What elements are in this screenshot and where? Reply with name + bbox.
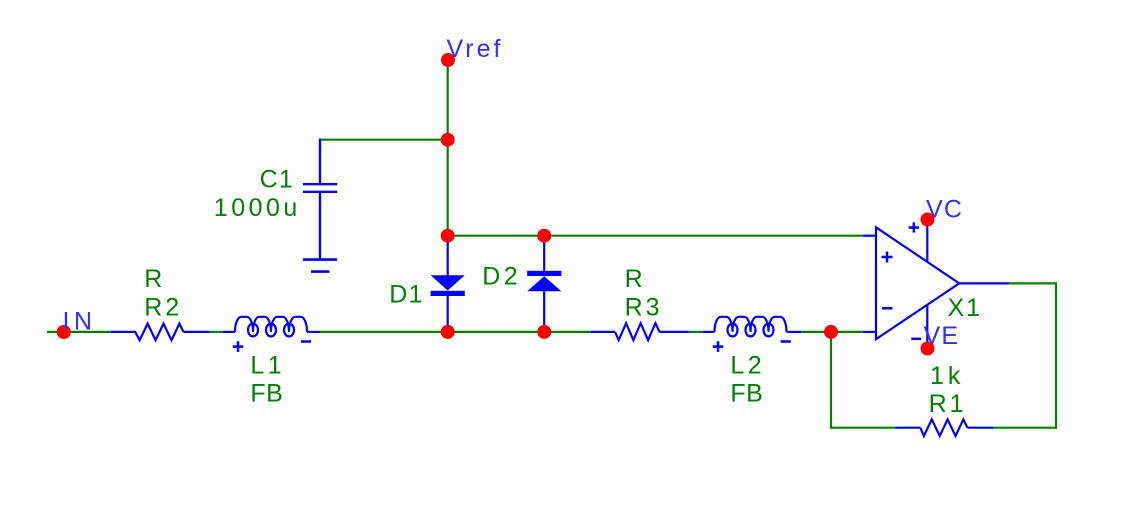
svg-text:FB: FB (250, 380, 283, 408)
wire R3 to L2 (689, 331, 703, 333)
svg-text:1000u: 1000u (214, 194, 301, 222)
op-amp VE supply pin (926, 306, 928, 349)
svg-text:X1: X1 (948, 294, 983, 322)
resistor R3 (591, 323, 689, 340)
wire L2 to op-amp minus input (801, 331, 863, 333)
svg-text:L2: L2 (730, 351, 765, 379)
op-amp output lead (959, 282, 1009, 284)
op-amp minus input pin stub (863, 331, 876, 333)
op-amp X1 triangle (876, 227, 959, 339)
wire Vref vertical (447, 60, 449, 236)
node VC dot (921, 213, 935, 227)
wire feedback bottom right (993, 427, 1057, 429)
svg-text:D2: D2 (482, 263, 521, 291)
svg-text:1k: 1k (930, 362, 964, 390)
node IN dot (57, 325, 71, 339)
op-amp VC supply pin (926, 220, 928, 262)
wire op-amp output (1009, 282, 1057, 284)
inductor L2 plus marker (713, 341, 724, 352)
svg-text:IN: IN (63, 308, 97, 336)
wire top rail diodes to op-amp plus input (448, 235, 863, 237)
node VE dot (921, 342, 935, 356)
svg-text:FB: FB (730, 380, 763, 408)
diode D2 (527, 236, 561, 332)
svg-text:D1: D1 (389, 281, 423, 309)
svg-text:L1: L1 (250, 351, 285, 379)
capacitor C1 (303, 139, 337, 259)
svg-text:R: R (144, 265, 163, 293)
node C1 junction dot (441, 133, 455, 147)
op-amp plus input marker (882, 252, 893, 263)
wire feedback left vertical (830, 332, 832, 429)
wire feedback bottom left (831, 427, 895, 429)
wire between R2 and L1 (209, 331, 223, 333)
node Vref dot (441, 53, 455, 67)
wire L1 to R3 through diode bottom nodes (320, 331, 591, 333)
node feedback junction dot (824, 325, 838, 339)
inductor L1 (223, 317, 320, 337)
svg-text:R2: R2 (144, 294, 182, 322)
node D1 top dot (441, 229, 455, 243)
op-amp plus input pin stub (863, 235, 876, 237)
inductor L1 minus marker (301, 340, 311, 343)
svg-text:R1: R1 (929, 390, 967, 418)
node D1 bottom dot (441, 325, 455, 339)
svg-text:C1: C1 (260, 165, 294, 193)
wire main rail left segment IN to R2 (47, 331, 111, 333)
wire C1 branch horizontal (320, 139, 448, 141)
inductor L2 (703, 317, 801, 337)
resistor R1 feedback (895, 419, 994, 436)
svg-text:Vref: Vref (447, 35, 504, 63)
op-amp VC plus marker (909, 222, 919, 232)
svg-text:R: R (625, 265, 644, 293)
op-amp minus input marker (882, 307, 893, 310)
resistor R2 (111, 324, 209, 341)
svg-text:R3: R3 (625, 293, 663, 321)
inductor L2 minus marker (781, 340, 791, 343)
op-amp VE minus marker (911, 338, 921, 341)
inductor L1 plus marker (233, 341, 244, 352)
node D2 bottom dot (537, 325, 551, 339)
diode D1 (431, 236, 465, 332)
node D2 top dot (537, 229, 551, 243)
ground symbol below C1 (303, 260, 337, 272)
wire feedback right vertical (1055, 283, 1057, 428)
